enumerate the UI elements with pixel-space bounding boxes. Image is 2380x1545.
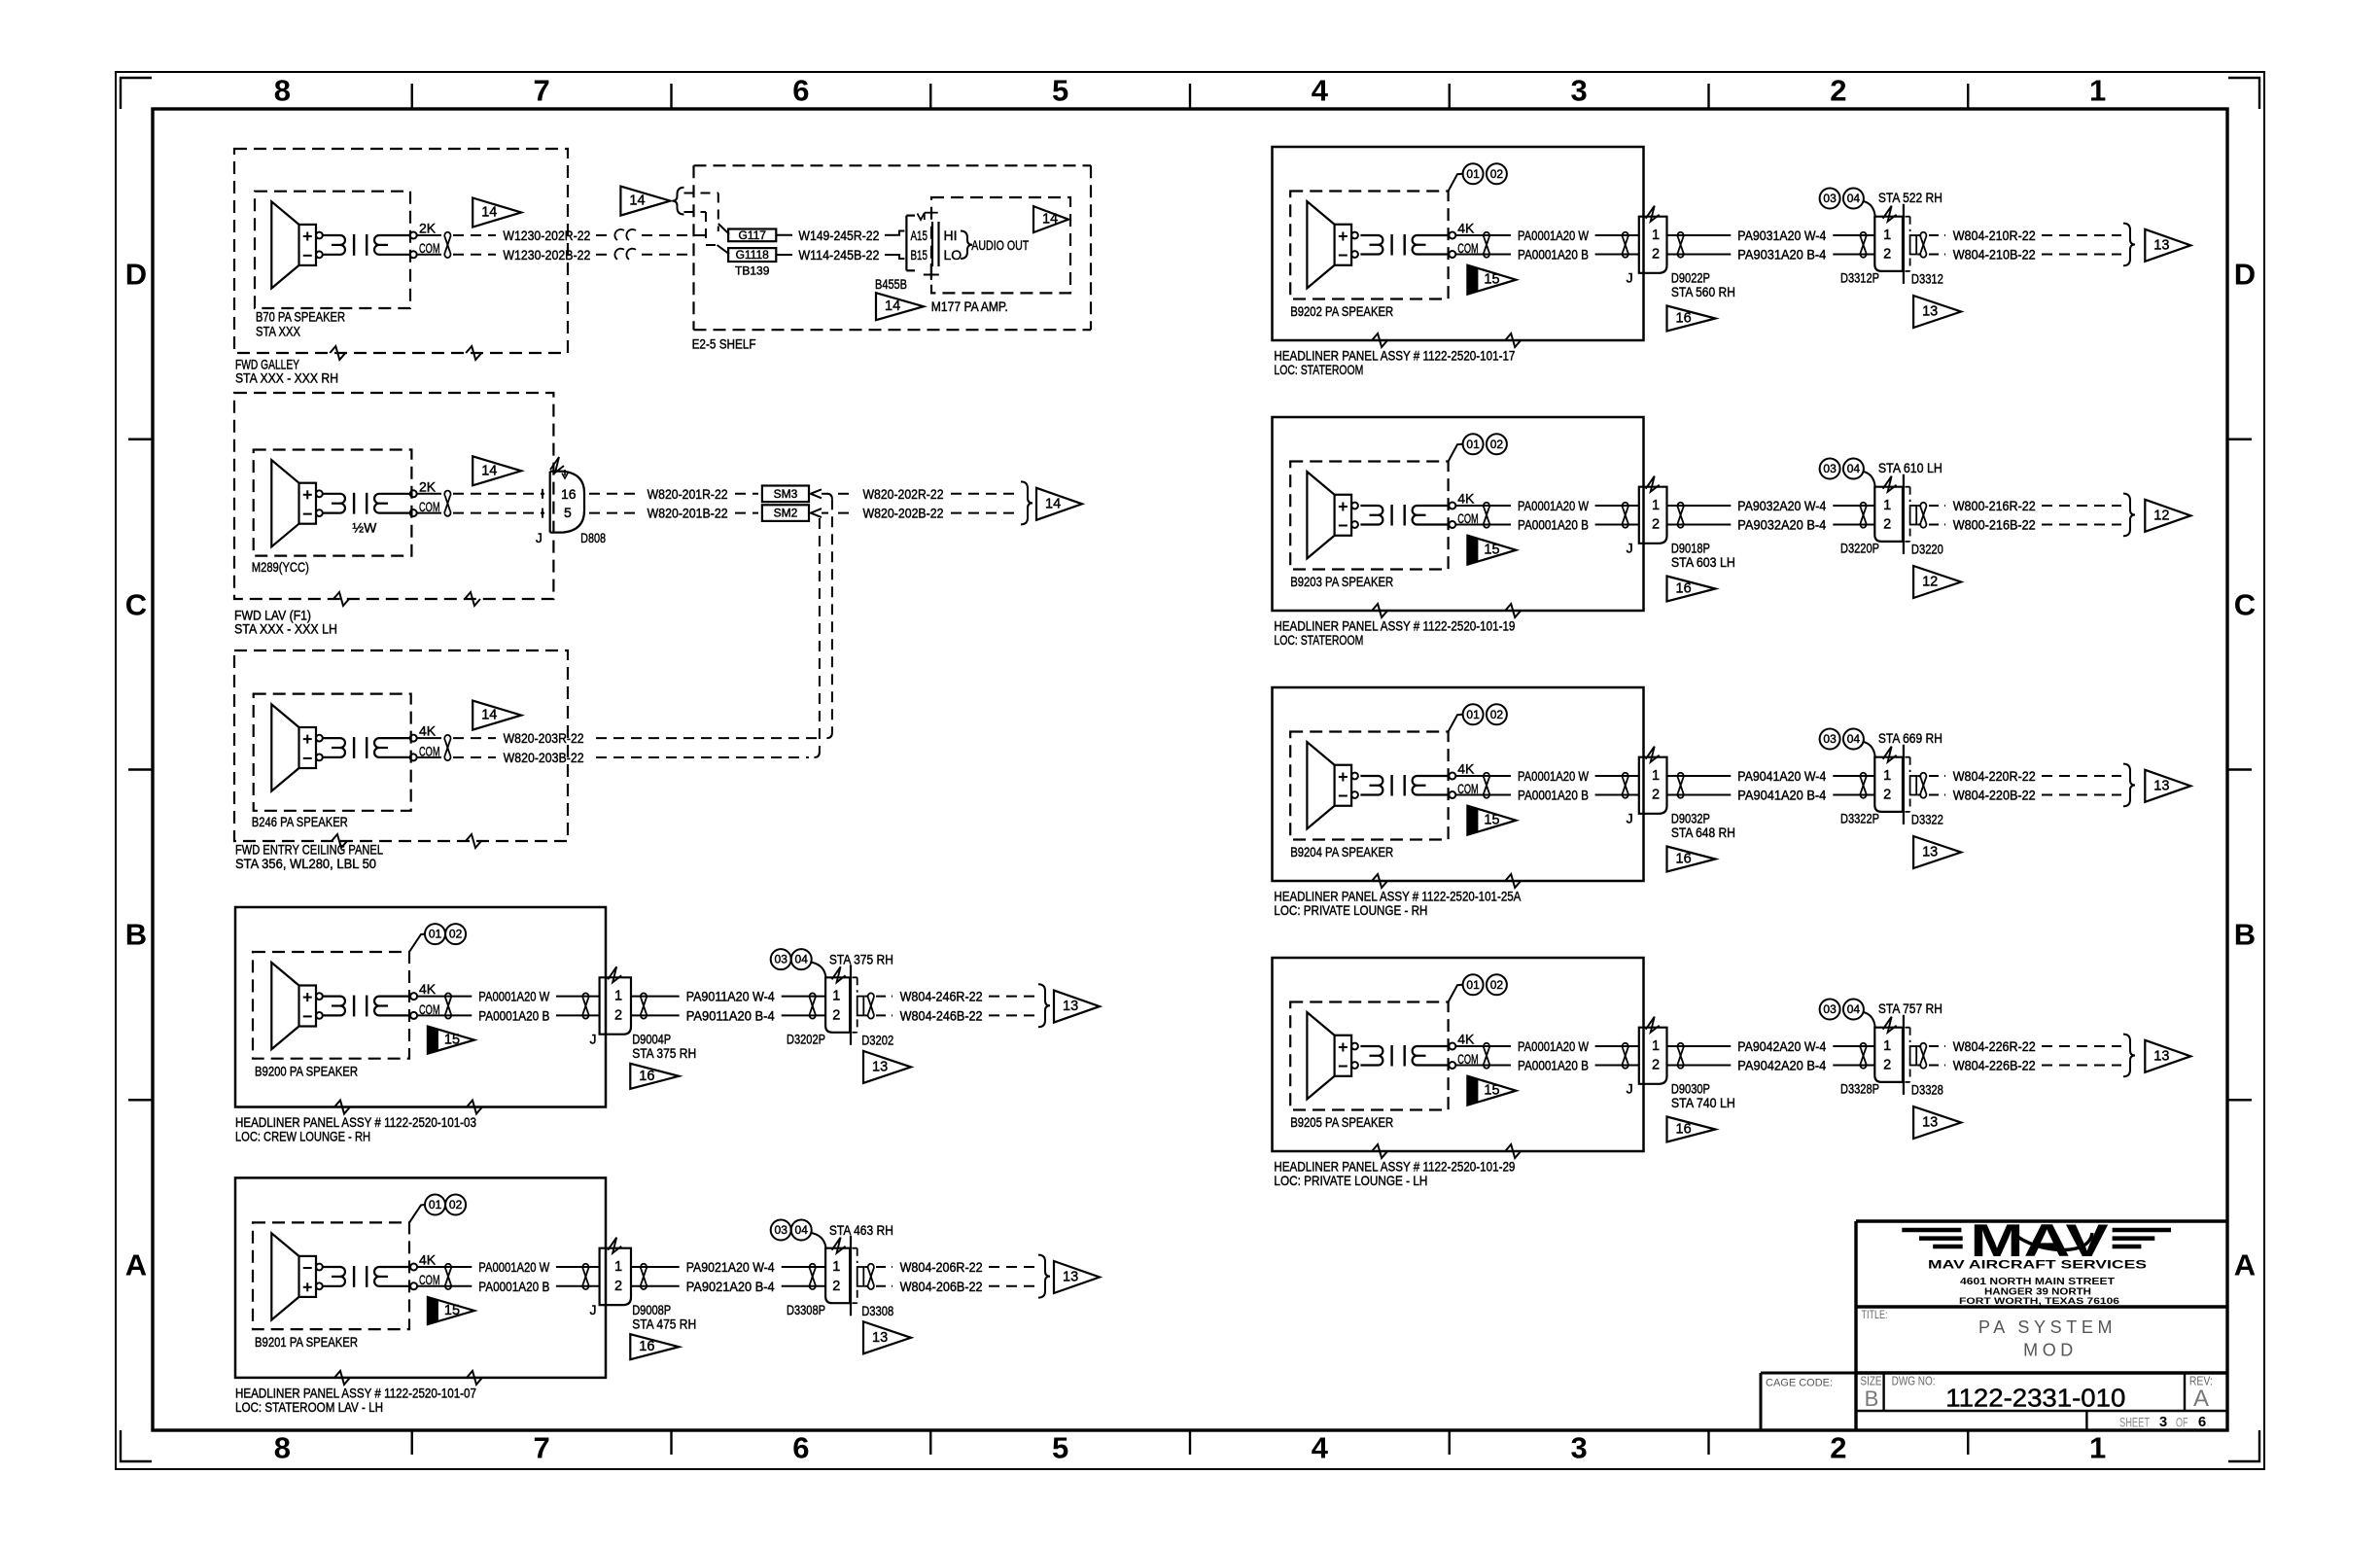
svg-text:PA9021A20 B-4: PA9021A20 B-4	[686, 1279, 775, 1294]
svg-text:1: 1	[1652, 768, 1660, 784]
svg-text:1: 1	[1883, 768, 1891, 784]
svg-text:15: 15	[1484, 272, 1499, 288]
svg-text:13: 13	[2153, 778, 2169, 793]
svg-text:PA0001A20 B: PA0001A20 B	[1518, 788, 1589, 803]
svg-text:D9022P: D9022P	[1671, 270, 1710, 286]
svg-text:PA0001A20 W: PA0001A20 W	[478, 989, 550, 1004]
svg-text:13: 13	[2153, 237, 2169, 253]
svg-text:04: 04	[1847, 1002, 1861, 1016]
svg-text:6: 6	[792, 1431, 809, 1465]
svg-text:4K: 4K	[419, 981, 437, 997]
svg-text:W820-201R-22: W820-201R-22	[647, 486, 728, 502]
svg-text:W1230-202B-22: W1230-202B-22	[503, 247, 590, 263]
svg-text:PA9042A20 B-4: PA9042A20 B-4	[1737, 1058, 1826, 1073]
svg-text:B70 PA SPEAKER: B70 PA SPEAKER	[256, 308, 345, 324]
svg-text:J: J	[1627, 270, 1633, 286]
svg-text:W820-202B-22: W820-202B-22	[863, 506, 944, 521]
svg-text:1: 1	[1652, 1038, 1660, 1054]
svg-text:STA XXX - XXX RH: STA XXX - XXX RH	[235, 370, 338, 386]
svg-text:01: 01	[1466, 438, 1480, 451]
svg-text:CAGE CODE:: CAGE CODE:	[1766, 1378, 1833, 1389]
svg-text:W804-210B-22: W804-210B-22	[1953, 247, 2036, 263]
svg-text:03: 03	[775, 1223, 788, 1237]
svg-text:D3322P: D3322P	[1840, 811, 1879, 826]
svg-text:2: 2	[832, 1279, 840, 1294]
svg-text:16: 16	[561, 486, 577, 502]
svg-text:2: 2	[1883, 1058, 1891, 1073]
svg-text:W804-210R-22: W804-210R-22	[1953, 228, 2036, 243]
svg-text:A15: A15	[911, 228, 928, 243]
svg-text:4K: 4K	[1457, 1032, 1475, 1047]
svg-text:W804-206B-22: W804-206B-22	[900, 1279, 983, 1294]
svg-text:PA9011A20 B-4: PA9011A20 B-4	[686, 1007, 775, 1023]
svg-text:6: 6	[792, 74, 809, 108]
svg-text:02: 02	[449, 1198, 463, 1211]
svg-text:D: D	[2234, 258, 2256, 292]
svg-text:PA0001A20 B: PA0001A20 B	[478, 1279, 549, 1294]
svg-text:2: 2	[1883, 788, 1891, 803]
svg-text:01: 01	[1466, 978, 1480, 992]
svg-text:STA 560 RH: STA 560 RH	[1671, 284, 1735, 299]
svg-text:PA0001A20 B: PA0001A20 B	[1518, 1058, 1589, 1073]
svg-text:2: 2	[1652, 1058, 1660, 1073]
svg-text:PA0001A20 W: PA0001A20 W	[478, 1259, 550, 1275]
svg-text:STA 463 RH: STA 463 RH	[829, 1222, 893, 1238]
svg-text:7: 7	[533, 74, 549, 108]
svg-text:1: 1	[1652, 498, 1660, 513]
svg-text:15: 15	[1484, 813, 1499, 828]
svg-text:COM: COM	[419, 1272, 440, 1287]
svg-text:J: J	[590, 1302, 597, 1317]
svg-text:5: 5	[564, 505, 572, 520]
svg-text:B9202 PA SPEAKER: B9202 PA SPEAKER	[1290, 303, 1393, 319]
svg-text:STA 610 LH: STA 610 LH	[1878, 460, 1942, 475]
svg-text:2: 2	[1883, 517, 1891, 533]
svg-text:8: 8	[274, 74, 291, 108]
svg-text:04: 04	[795, 1223, 809, 1237]
svg-text:2: 2	[1652, 788, 1660, 803]
svg-text:MOD: MOD	[2023, 1340, 2078, 1359]
svg-text:LO: LO	[944, 247, 962, 263]
svg-text:PA0001A20 W: PA0001A20 W	[1518, 768, 1590, 784]
svg-text:D9004P: D9004P	[632, 1031, 671, 1046]
svg-text:2: 2	[832, 1007, 840, 1023]
svg-text:01: 01	[1466, 167, 1480, 181]
svg-text:PA0001A20 B: PA0001A20 B	[478, 1007, 549, 1023]
svg-text:W149-245R-22: W149-245R-22	[798, 228, 879, 243]
svg-text:04: 04	[1847, 732, 1861, 746]
svg-text:D3308P: D3308P	[787, 1302, 825, 1317]
svg-text:W804-206R-22: W804-206R-22	[900, 1259, 983, 1275]
svg-text:W800-216B-22: W800-216B-22	[1953, 517, 2036, 533]
svg-text:D3312P: D3312P	[1840, 270, 1879, 286]
svg-text:C: C	[125, 588, 147, 622]
svg-text:PA9032A20 B-4: PA9032A20 B-4	[1737, 517, 1826, 533]
svg-text:B: B	[2234, 918, 2256, 952]
svg-text:B9203 PA SPEAKER: B9203 PA SPEAKER	[1290, 574, 1393, 589]
svg-text:04: 04	[1847, 192, 1861, 205]
svg-text:A: A	[2193, 1386, 2209, 1412]
svg-text:W804-246B-22: W804-246B-22	[900, 1007, 983, 1023]
svg-text:15: 15	[1484, 1083, 1499, 1099]
svg-text:D3202: D3202	[861, 1032, 893, 1047]
svg-text:PA0001A20 B: PA0001A20 B	[1518, 517, 1589, 533]
svg-text:B9200 PA SPEAKER: B9200 PA SPEAKER	[255, 1064, 358, 1079]
svg-text:LOC: STATEROOM: LOC: STATEROOM	[1274, 362, 1363, 377]
svg-text:W820-201B-22: W820-201B-22	[647, 506, 728, 521]
svg-text:D808: D808	[580, 530, 606, 545]
svg-text:02: 02	[1490, 167, 1504, 181]
svg-text:SM2: SM2	[774, 507, 798, 520]
svg-text:W820-203R-22: W820-203R-22	[504, 730, 584, 746]
svg-text:04: 04	[795, 953, 809, 966]
svg-text:G1118: G1118	[736, 248, 770, 262]
svg-text:14: 14	[481, 463, 497, 478]
svg-text:B15: B15	[911, 247, 928, 263]
svg-text:14: 14	[481, 708, 497, 723]
svg-text:8: 8	[274, 1431, 291, 1465]
svg-text:STA 669 RH: STA 669 RH	[1878, 730, 1942, 746]
svg-text:W804-226B-22: W804-226B-22	[1953, 1058, 2036, 1073]
svg-text:PA0001A20 W: PA0001A20 W	[1518, 1038, 1590, 1054]
svg-text:3: 3	[2159, 1414, 2167, 1430]
svg-text:PA9041A20 W-4: PA9041A20 W-4	[1737, 768, 1826, 784]
svg-text:2K: 2K	[419, 478, 437, 494]
svg-text:STA 375 RH: STA 375 RH	[829, 952, 893, 967]
svg-text:01: 01	[429, 928, 442, 941]
svg-text:12: 12	[2153, 508, 2169, 523]
svg-text:STA XXX: STA XXX	[256, 323, 301, 338]
svg-text:PA9041A20 B-4: PA9041A20 B-4	[1737, 788, 1826, 803]
svg-text:2: 2	[614, 1279, 622, 1294]
svg-text:PA9032A20 W-4: PA9032A20 W-4	[1737, 498, 1826, 513]
svg-text:16: 16	[1676, 581, 1692, 597]
svg-text:STA 757 RH: STA 757 RH	[1878, 1001, 1942, 1016]
svg-text:13: 13	[1922, 845, 1938, 860]
svg-text:1: 1	[1652, 228, 1660, 243]
svg-text:M289(YCC): M289(YCC)	[252, 559, 309, 575]
svg-text:1: 1	[2089, 1431, 2106, 1465]
svg-text:LOC: STATEROOM LAV - LH: LOC: STATEROOM LAV - LH	[235, 1399, 383, 1415]
svg-text:4601 NORTH MAIN STREET: 4601 NORTH MAIN STREET	[1960, 1277, 2115, 1287]
svg-text:4K: 4K	[1457, 491, 1475, 507]
svg-text:2K: 2K	[419, 221, 437, 236]
svg-text:02: 02	[1490, 438, 1504, 451]
svg-text:W114-245B-22: W114-245B-22	[798, 247, 879, 263]
svg-text:PA0001A20 W: PA0001A20 W	[1518, 498, 1590, 513]
svg-text:STA 603 LH: STA 603 LH	[1671, 554, 1735, 570]
svg-text:03: 03	[1823, 732, 1837, 746]
svg-text:2: 2	[1830, 74, 1846, 108]
svg-text:1: 1	[1883, 228, 1891, 243]
svg-text:J: J	[1627, 541, 1633, 556]
svg-text:W804-220R-22: W804-220R-22	[1953, 768, 2036, 784]
svg-text:13: 13	[2153, 1048, 2169, 1064]
svg-text:16: 16	[1676, 852, 1692, 867]
svg-text:01: 01	[429, 1198, 442, 1211]
svg-text:15: 15	[444, 1303, 460, 1318]
svg-text:B: B	[1865, 1387, 1879, 1411]
svg-text:D3312: D3312	[1911, 271, 1943, 287]
svg-text:02: 02	[1490, 708, 1504, 721]
svg-text:AUDIO OUT: AUDIO OUT	[971, 237, 1029, 253]
svg-text:J: J	[536, 530, 542, 545]
svg-text:LOC: PRIVATE LOUNGE - RH: LOC: PRIVATE LOUNGE - RH	[1274, 902, 1427, 918]
svg-text:02: 02	[449, 928, 463, 941]
svg-text:4: 4	[1312, 1431, 1329, 1465]
svg-text:1122-2331-010: 1122-2331-010	[1945, 1384, 2125, 1413]
svg-text:14: 14	[481, 205, 497, 221]
svg-text:FORT WORTH, TEXAS 76106: FORT WORTH, TEXAS 76106	[1959, 1296, 2119, 1307]
svg-text:2: 2	[1830, 1431, 1846, 1465]
svg-text:13: 13	[1922, 304, 1938, 320]
svg-text:B246 PA SPEAKER: B246 PA SPEAKER	[252, 814, 348, 829]
svg-text:D9032P: D9032P	[1671, 811, 1710, 826]
svg-text:½W: ½W	[352, 520, 377, 536]
svg-text:15: 15	[444, 1033, 460, 1048]
svg-text:5: 5	[1052, 74, 1068, 108]
svg-text:W804-226R-22: W804-226R-22	[1953, 1038, 2036, 1054]
svg-text:15: 15	[1484, 543, 1499, 558]
svg-text:16: 16	[1676, 311, 1692, 327]
svg-text:J: J	[1627, 1081, 1633, 1097]
svg-text:1: 1	[2089, 74, 2106, 108]
svg-text:13: 13	[1063, 1270, 1078, 1285]
svg-text:W820-202R-22: W820-202R-22	[863, 486, 944, 502]
svg-text:3: 3	[1570, 1431, 1587, 1465]
svg-text:PA9031A20 W-4: PA9031A20 W-4	[1737, 228, 1826, 243]
svg-text:14: 14	[1045, 496, 1061, 511]
svg-text:PA9042A20 W-4: PA9042A20 W-4	[1737, 1038, 1826, 1054]
svg-text:04: 04	[1847, 462, 1861, 475]
svg-text:LOC: CREW LOUNGE - RH: LOC: CREW LOUNGE - RH	[235, 1129, 370, 1144]
svg-text:D3328P: D3328P	[1840, 1081, 1879, 1097]
svg-text:PA0001A20 B: PA0001A20 B	[1518, 247, 1589, 263]
svg-text:3: 3	[1570, 74, 1587, 108]
svg-text:B9205 PA SPEAKER: B9205 PA SPEAKER	[1290, 1114, 1393, 1130]
svg-text:W1230-202R-22: W1230-202R-22	[503, 228, 590, 243]
svg-text:D3220P: D3220P	[1840, 541, 1879, 556]
svg-text:STA 356, WL280, LBL 50: STA 356, WL280, LBL 50	[235, 856, 376, 871]
svg-text:D3202P: D3202P	[787, 1031, 825, 1046]
svg-text:M177 PA AMP.: M177 PA AMP.	[931, 298, 1008, 314]
svg-text:03: 03	[1823, 192, 1837, 205]
svg-text:STA 740 LH: STA 740 LH	[1671, 1095, 1735, 1110]
svg-text:D3328: D3328	[1911, 1082, 1943, 1098]
svg-text:D9018P: D9018P	[1671, 541, 1710, 556]
svg-text:4: 4	[1312, 74, 1329, 108]
svg-text:4K: 4K	[419, 1252, 437, 1268]
svg-text:1: 1	[614, 989, 622, 1004]
svg-text:13: 13	[1063, 999, 1078, 1014]
svg-text:D9008P: D9008P	[632, 1302, 671, 1317]
svg-text:J: J	[590, 1032, 597, 1047]
svg-text:LOC: STATEROOM: LOC: STATEROOM	[1274, 632, 1363, 648]
svg-text:1: 1	[614, 1259, 622, 1275]
svg-text:14: 14	[629, 193, 645, 209]
svg-text:6: 6	[2198, 1414, 2206, 1430]
svg-text:2: 2	[1652, 517, 1660, 533]
svg-text:STA XXX - XXX LH: STA XXX - XXX LH	[234, 621, 337, 637]
svg-text:03: 03	[1823, 462, 1837, 475]
svg-text:13: 13	[872, 1059, 888, 1074]
svg-text:4K: 4K	[419, 723, 437, 739]
svg-text:D3308: D3308	[861, 1303, 893, 1318]
svg-text:LOC: PRIVATE LOUNGE - LH: LOC: PRIVATE LOUNGE - LH	[1274, 1173, 1427, 1188]
svg-text:13: 13	[872, 1330, 888, 1346]
svg-text:TB139: TB139	[735, 263, 770, 277]
svg-text:PA9011A20 W-4: PA9011A20 W-4	[686, 989, 775, 1004]
svg-text:14: 14	[1042, 212, 1058, 228]
svg-text:PA9031A20 B-4: PA9031A20 B-4	[1737, 247, 1826, 263]
svg-text:1: 1	[832, 1259, 840, 1275]
svg-text:B455B: B455B	[875, 276, 907, 292]
svg-text:PA SYSTEM: PA SYSTEM	[1978, 1317, 2117, 1337]
svg-text:STA 475 RH: STA 475 RH	[632, 1316, 696, 1331]
svg-text:12: 12	[1922, 575, 1938, 590]
svg-text:D9030P: D9030P	[1671, 1081, 1710, 1097]
svg-text:SM3: SM3	[774, 487, 798, 501]
svg-text:1: 1	[832, 989, 840, 1004]
svg-text:4K: 4K	[1457, 761, 1475, 777]
svg-text:G117: G117	[738, 228, 766, 242]
svg-text:W820-203B-22: W820-203B-22	[504, 750, 584, 765]
svg-text:B9204 PA SPEAKER: B9204 PA SPEAKER	[1290, 844, 1393, 860]
svg-text:C: C	[2234, 588, 2256, 622]
svg-text:B: B	[125, 918, 147, 952]
svg-text:4K: 4K	[1457, 221, 1475, 236]
svg-text:02: 02	[1490, 978, 1504, 992]
svg-text:2: 2	[1652, 247, 1660, 263]
svg-text:W800-216R-22: W800-216R-22	[1953, 498, 2036, 513]
svg-text:PA0001A20 W: PA0001A20 W	[1518, 228, 1590, 243]
svg-text:OF: OF	[2176, 1414, 2188, 1429]
svg-text:16: 16	[639, 1069, 654, 1084]
svg-text:W804-246R-22: W804-246R-22	[900, 989, 983, 1004]
svg-text:16: 16	[639, 1339, 654, 1354]
svg-text:7: 7	[533, 1431, 549, 1465]
svg-text:1: 1	[1883, 498, 1891, 513]
svg-text:E2-5 SHELF: E2-5 SHELF	[692, 336, 756, 352]
svg-text:HI: HI	[944, 228, 958, 243]
svg-text:2: 2	[1883, 247, 1891, 263]
svg-text:D3220: D3220	[1911, 542, 1943, 557]
svg-text:03: 03	[1823, 1002, 1837, 1016]
svg-text:5: 5	[1052, 1431, 1068, 1465]
svg-text:2: 2	[614, 1007, 622, 1023]
svg-text:A: A	[125, 1248, 147, 1282]
svg-text:14: 14	[885, 298, 900, 314]
svg-text:PA9021A20 W-4: PA9021A20 W-4	[686, 1259, 775, 1275]
svg-text:J: J	[1627, 811, 1633, 826]
svg-text:01: 01	[1466, 708, 1480, 721]
svg-text:COM: COM	[419, 743, 440, 758]
svg-text:1: 1	[1883, 1038, 1891, 1054]
svg-text:D3322: D3322	[1911, 812, 1943, 827]
svg-text:DWG NO:: DWG NO:	[1892, 1375, 1936, 1388]
svg-text:A: A	[2234, 1248, 2256, 1282]
svg-text:STA 522 RH: STA 522 RH	[1878, 190, 1942, 205]
svg-text:B9201 PA SPEAKER: B9201 PA SPEAKER	[255, 1334, 358, 1350]
svg-text:TITLE:: TITLE:	[1862, 1308, 1888, 1321]
svg-text:13: 13	[1922, 1115, 1938, 1131]
svg-text:D: D	[125, 258, 147, 292]
svg-text:03: 03	[775, 953, 788, 966]
svg-text:W804-220B-22: W804-220B-22	[1953, 788, 2036, 803]
svg-text:STA 648 RH: STA 648 RH	[1671, 825, 1735, 840]
svg-text:STA 375 RH: STA 375 RH	[632, 1045, 696, 1061]
svg-text:16: 16	[1676, 1122, 1692, 1138]
svg-text:SHEET: SHEET	[2119, 1414, 2150, 1429]
